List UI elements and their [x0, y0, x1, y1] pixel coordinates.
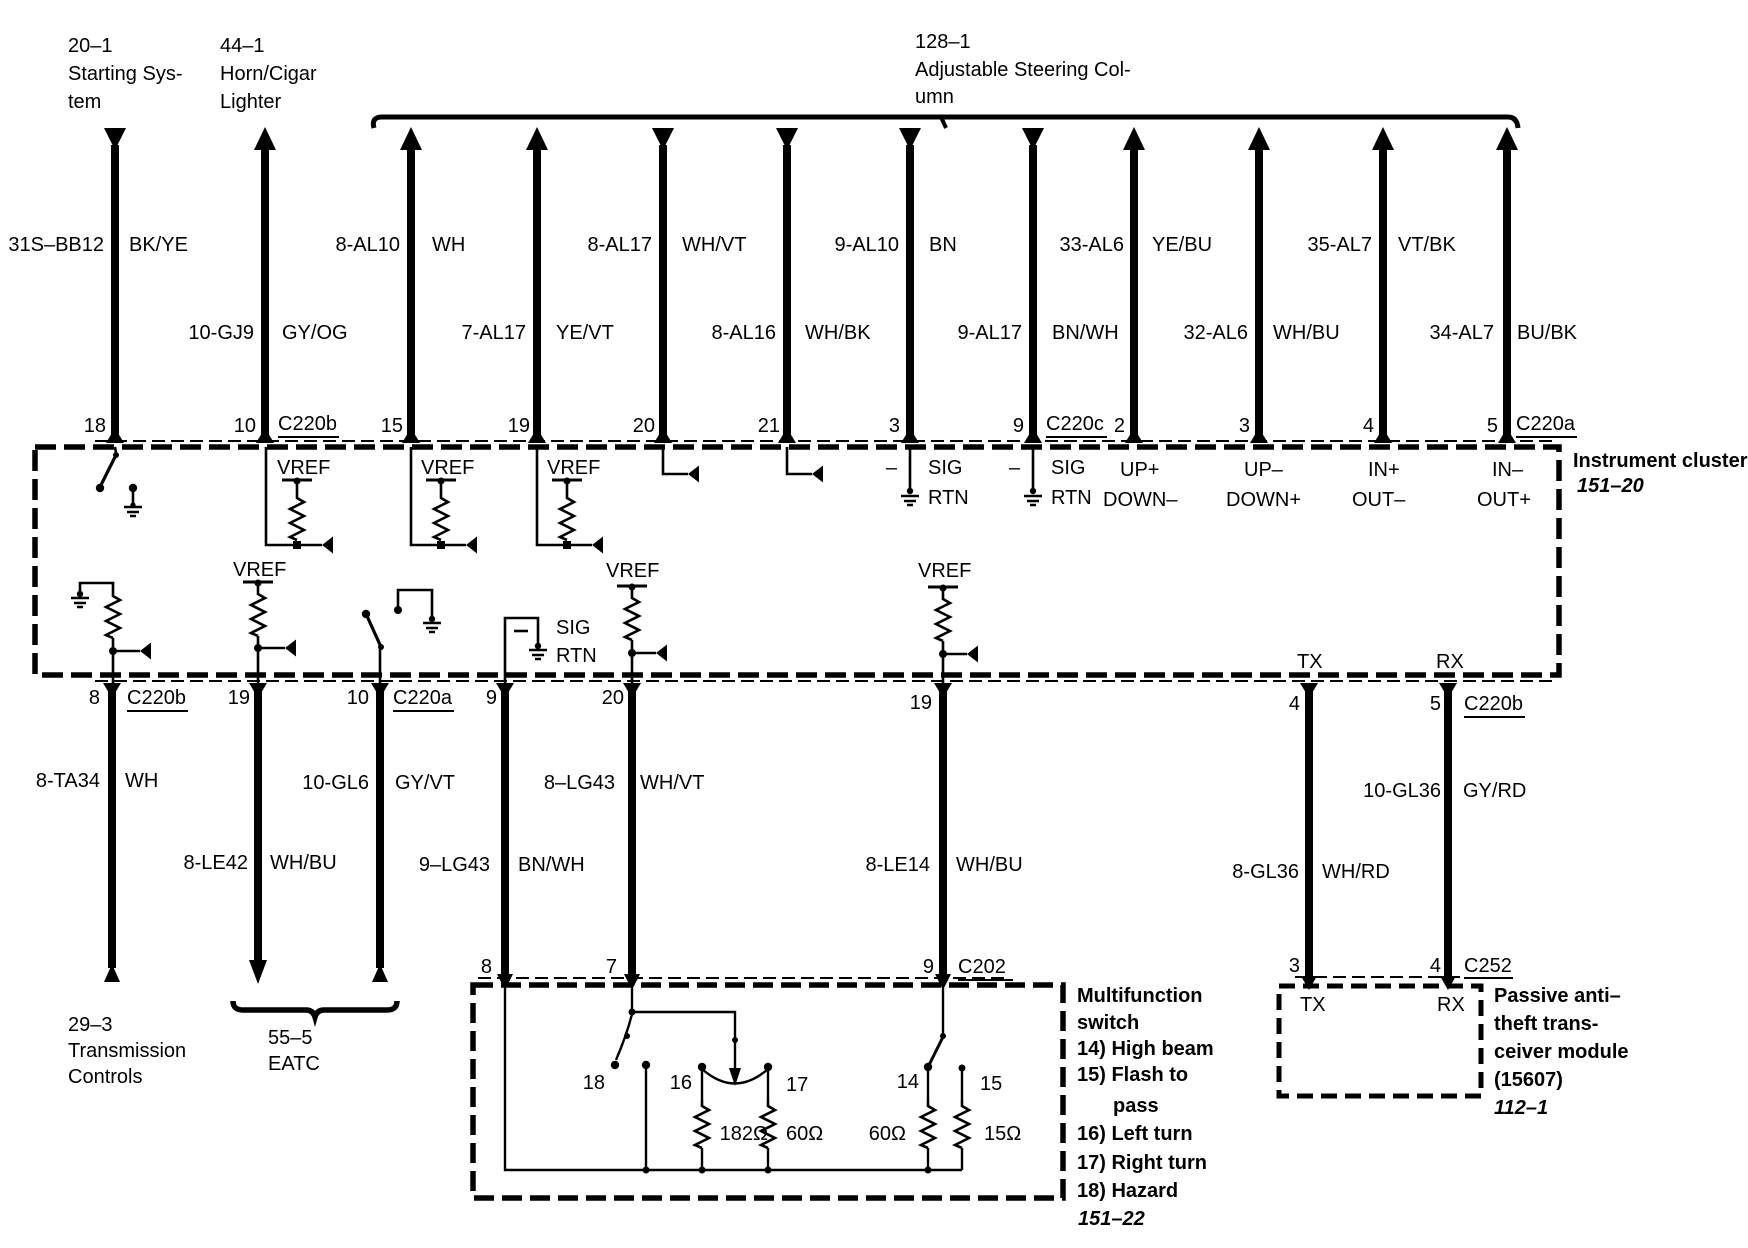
- svg-text:SIG: SIG: [1051, 457, 1085, 479]
- svg-text:VREF: VREF: [277, 457, 330, 479]
- svg-text:18: 18: [583, 1072, 605, 1094]
- svg-text:8: 8: [481, 956, 492, 978]
- svg-text:VREF: VREF: [918, 560, 971, 582]
- svg-text:Passive anti–: Passive anti–: [1494, 985, 1621, 1007]
- svg-text:8: 8: [89, 687, 100, 709]
- svg-text:VT/BK: VT/BK: [1398, 234, 1456, 256]
- svg-text:VREF: VREF: [606, 560, 659, 582]
- svg-text:tem: tem: [68, 91, 101, 113]
- svg-text:Transmission: Transmission: [68, 1040, 186, 1062]
- svg-text:31S–BB12: 31S–BB12: [8, 234, 104, 256]
- svg-text:44–1: 44–1: [220, 35, 265, 57]
- svg-text:9: 9: [923, 956, 934, 978]
- svg-text:IN+: IN+: [1368, 459, 1400, 481]
- svg-text:VREF: VREF: [421, 457, 474, 479]
- svg-text:182Ω: 182Ω: [720, 1123, 768, 1145]
- svg-text:8-LE42: 8-LE42: [184, 852, 249, 874]
- svg-text:theft trans-: theft trans-: [1494, 1013, 1598, 1035]
- svg-text:15Ω: 15Ω: [984, 1123, 1021, 1145]
- svg-text:55–5: 55–5: [268, 1027, 313, 1049]
- svg-text:umn: umn: [915, 86, 954, 108]
- svg-text:–: –: [1009, 457, 1021, 479]
- svg-text:GY/VT: GY/VT: [395, 772, 455, 794]
- svg-text:7: 7: [606, 956, 617, 978]
- svg-text:4: 4: [1289, 693, 1300, 715]
- svg-text:Controls: Controls: [68, 1066, 142, 1088]
- svg-text:7-AL17: 7-AL17: [462, 322, 527, 344]
- svg-text:BU/BK: BU/BK: [1517, 322, 1578, 344]
- svg-text:Adjustable Steering Col-: Adjustable Steering Col-: [915, 59, 1131, 81]
- svg-text:5: 5: [1430, 693, 1441, 715]
- svg-text:5: 5: [1487, 415, 1498, 437]
- svg-text:C220a: C220a: [393, 687, 453, 709]
- svg-text:WH: WH: [125, 770, 158, 792]
- svg-text:UP–: UP–: [1244, 459, 1284, 481]
- svg-text:10-GL6: 10-GL6: [302, 772, 369, 794]
- svg-text:18: 18: [84, 415, 106, 437]
- svg-text:60Ω: 60Ω: [786, 1123, 823, 1145]
- svg-text:21: 21: [758, 415, 780, 437]
- svg-text:2: 2: [1114, 415, 1125, 437]
- svg-text:Starting Sys-: Starting Sys-: [68, 63, 182, 85]
- svg-text:C252: C252: [1464, 955, 1512, 977]
- svg-text:10: 10: [234, 415, 256, 437]
- svg-text:BK/YE: BK/YE: [129, 234, 188, 256]
- svg-text:3: 3: [889, 415, 900, 437]
- svg-text:YE/BU: YE/BU: [1152, 234, 1212, 256]
- svg-text:Horn/Cigar: Horn/Cigar: [220, 63, 317, 85]
- svg-text:112–1: 112–1: [1494, 1097, 1548, 1119]
- svg-text:RTN: RTN: [1051, 487, 1092, 509]
- svg-text:10-GL36: 10-GL36: [1363, 780, 1441, 802]
- svg-text:8-TA34: 8-TA34: [36, 770, 100, 792]
- svg-text:C220a: C220a: [1516, 413, 1576, 435]
- svg-text:Lighter: Lighter: [220, 91, 281, 113]
- svg-text:IN–: IN–: [1492, 459, 1524, 481]
- svg-text:9: 9: [1013, 415, 1024, 437]
- svg-text:20–1: 20–1: [68, 35, 113, 57]
- svg-text:19: 19: [910, 692, 932, 714]
- svg-text:OUT+: OUT+: [1477, 489, 1531, 511]
- svg-text:9-AL17: 9-AL17: [958, 322, 1023, 344]
- svg-text:4: 4: [1363, 415, 1374, 437]
- svg-text:DOWN–: DOWN–: [1103, 489, 1178, 511]
- svg-text:RX: RX: [1437, 994, 1465, 1016]
- svg-text:18) Hazard: 18) Hazard: [1077, 1180, 1178, 1202]
- svg-text:3: 3: [1289, 955, 1300, 977]
- svg-text:19: 19: [508, 415, 530, 437]
- svg-text:Instrument cluster: Instrument cluster: [1573, 450, 1748, 472]
- svg-text:10-GJ9: 10-GJ9: [188, 322, 254, 344]
- svg-text:RX: RX: [1436, 651, 1464, 673]
- svg-text:WH/BU: WH/BU: [1273, 322, 1340, 344]
- svg-text:3: 3: [1239, 415, 1250, 437]
- svg-text:128–1: 128–1: [915, 31, 971, 53]
- svg-text:DOWN+: DOWN+: [1226, 489, 1301, 511]
- svg-text:BN/WH: BN/WH: [1052, 322, 1119, 344]
- svg-text:17: 17: [786, 1074, 808, 1096]
- svg-text:9–LG43: 9–LG43: [419, 854, 490, 876]
- svg-text:60Ω: 60Ω: [869, 1123, 906, 1145]
- svg-text:WH/BK: WH/BK: [805, 322, 871, 344]
- svg-text:–: –: [886, 457, 898, 479]
- svg-text:WH/VT: WH/VT: [682, 234, 746, 256]
- svg-text:TX: TX: [1297, 651, 1323, 673]
- svg-text:EATC: EATC: [268, 1053, 320, 1075]
- svg-text:8–LG43: 8–LG43: [544, 772, 615, 794]
- svg-text:35-AL7: 35-AL7: [1308, 234, 1373, 256]
- svg-text:YE/VT: YE/VT: [556, 322, 614, 344]
- svg-text:WH/BU: WH/BU: [956, 854, 1023, 876]
- svg-text:BN: BN: [929, 234, 957, 256]
- svg-text:GY/RD: GY/RD: [1463, 780, 1526, 802]
- svg-text:20: 20: [602, 687, 624, 709]
- svg-text:UP+: UP+: [1120, 459, 1159, 481]
- svg-text:14) High beam: 14) High beam: [1077, 1038, 1214, 1060]
- svg-text:RTN: RTN: [928, 487, 969, 509]
- svg-text:C220b: C220b: [278, 413, 337, 435]
- svg-text:8-AL16: 8-AL16: [712, 322, 777, 344]
- svg-text:C220b: C220b: [127, 687, 186, 709]
- svg-text:RTN: RTN: [556, 645, 597, 667]
- svg-text:8-LE14: 8-LE14: [866, 854, 931, 876]
- svg-text:33-AL6: 33-AL6: [1060, 234, 1125, 256]
- svg-text:C202: C202: [958, 956, 1006, 978]
- svg-text:29–3: 29–3: [68, 1014, 113, 1036]
- svg-text:15) Flash to: 15) Flash to: [1077, 1064, 1188, 1086]
- svg-text:VREF: VREF: [233, 559, 286, 581]
- svg-text:SIG: SIG: [556, 617, 590, 639]
- svg-text:WH: WH: [432, 234, 465, 256]
- svg-text:VREF: VREF: [547, 457, 600, 479]
- svg-text:151–20: 151–20: [1577, 475, 1644, 497]
- svg-text:GY/OG: GY/OG: [282, 322, 348, 344]
- svg-text:WH/BU: WH/BU: [270, 852, 337, 874]
- svg-text:TX: TX: [1300, 994, 1326, 1016]
- svg-text:8-AL17: 8-AL17: [588, 234, 653, 256]
- svg-text:SIG: SIG: [928, 457, 962, 479]
- svg-text:pass: pass: [1113, 1095, 1159, 1117]
- svg-text:20: 20: [633, 415, 655, 437]
- svg-text:14: 14: [897, 1071, 919, 1093]
- svg-text:C220b: C220b: [1464, 693, 1523, 715]
- svg-text:19: 19: [228, 687, 250, 709]
- svg-text:C220c: C220c: [1046, 413, 1104, 435]
- svg-text:Multifunction: Multifunction: [1077, 985, 1203, 1007]
- svg-text:ceiver module: ceiver module: [1494, 1041, 1629, 1063]
- svg-text:OUT–: OUT–: [1352, 489, 1406, 511]
- svg-text:17) Right turn: 17) Right turn: [1077, 1152, 1207, 1174]
- svg-text:WH/RD: WH/RD: [1322, 861, 1390, 883]
- svg-text:8-AL10: 8-AL10: [336, 234, 401, 256]
- svg-text:16: 16: [670, 1072, 692, 1094]
- svg-text:WH/VT: WH/VT: [640, 772, 704, 794]
- svg-text:32-AL6: 32-AL6: [1184, 322, 1249, 344]
- svg-text:(15607): (15607): [1494, 1069, 1563, 1091]
- svg-text:BN/WH: BN/WH: [518, 854, 585, 876]
- svg-text:15: 15: [381, 415, 403, 437]
- svg-text:10: 10: [347, 687, 369, 709]
- svg-text:switch: switch: [1077, 1012, 1139, 1034]
- svg-text:4: 4: [1430, 955, 1441, 977]
- svg-text:8-GL36: 8-GL36: [1232, 861, 1299, 883]
- svg-text:9: 9: [486, 687, 497, 709]
- svg-text:15: 15: [980, 1073, 1002, 1095]
- svg-text:16) Left turn: 16) Left turn: [1077, 1123, 1193, 1145]
- svg-text:34-AL7: 34-AL7: [1430, 322, 1495, 344]
- svg-text:151–22: 151–22: [1078, 1208, 1145, 1230]
- svg-text:9-AL10: 9-AL10: [835, 234, 900, 256]
